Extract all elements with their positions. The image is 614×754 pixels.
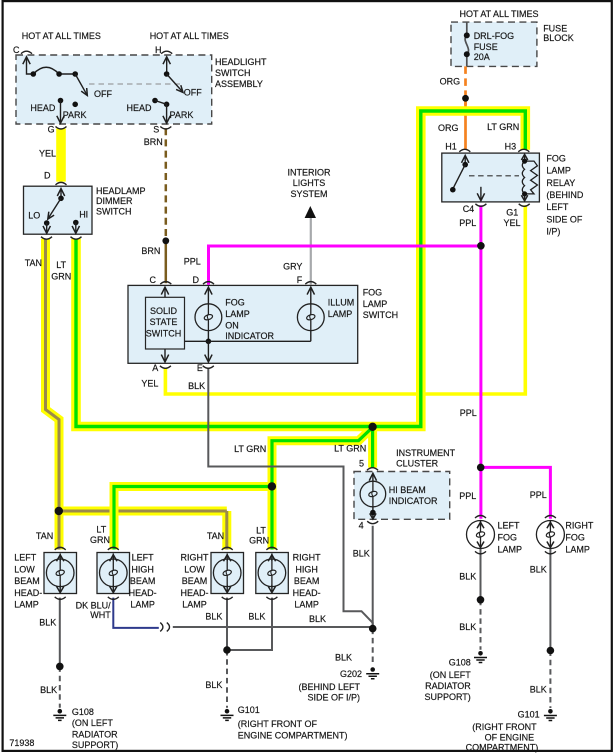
svg-text:BLK: BLK <box>248 611 265 621</box>
svg-text:LT GRN: LT GRN <box>234 444 266 454</box>
svg-text:HI BEAM: HI BEAM <box>389 485 426 495</box>
svg-text:5: 5 <box>359 459 364 469</box>
wire ORG: splice to relay H1 (solid) <box>464 101 467 150</box>
label ground G108 left <box>72 707 118 750</box>
label BLK ground bus <box>309 614 326 624</box>
splice dot on ORG wire <box>462 95 469 102</box>
svg-text:HIGH: HIGH <box>131 564 154 574</box>
svg-text:BLOCK: BLOCK <box>543 33 574 43</box>
label PARK left <box>63 110 87 120</box>
terminal 5 <box>367 468 378 471</box>
label LT GRN wire mid right <box>334 443 366 453</box>
label BLK wire left low beam <box>39 617 56 627</box>
svg-text:YEL: YEL <box>504 218 521 228</box>
svg-text:H1: H1 <box>445 141 457 151</box>
wire ORG: fuse block to splice (dashed) <box>464 66 467 150</box>
svg-text:TAN: TAN <box>207 531 224 541</box>
left fog lamp bulb <box>467 516 495 554</box>
terminal F fog switch <box>305 282 316 285</box>
svg-text:PARK: PARK <box>63 110 87 120</box>
headlamp dimmer switch wiper <box>43 189 80 234</box>
svg-text:F: F <box>297 275 303 285</box>
svg-text:D: D <box>193 275 200 285</box>
label ORG wire lower <box>438 123 459 133</box>
svg-text:RELAY: RELAY <box>546 178 575 188</box>
label OFF left <box>94 89 112 99</box>
svg-text:SOLID: SOLID <box>150 306 178 316</box>
svg-text:(BEHIND LEFT: (BEHIND LEFT <box>298 682 360 692</box>
label LT GRN wire at right high beam <box>249 525 269 545</box>
dimmer HI terminal <box>71 237 82 240</box>
ground G202 <box>366 667 379 679</box>
terminal C fog switch <box>160 282 171 285</box>
svg-text:HOT AT ALL TIMES: HOT AT ALL TIMES <box>22 31 101 41</box>
fog lamp on indicator bulb <box>195 287 222 362</box>
ground G101 right <box>544 709 557 721</box>
svg-text:RIGHT: RIGHT <box>293 553 322 563</box>
svg-text:BLK: BLK <box>205 680 222 690</box>
right high beam headlamp box <box>256 553 288 594</box>
label solid state switch <box>146 306 182 339</box>
svg-text:PPL: PPL <box>460 408 477 418</box>
svg-text:TAN: TAN <box>36 531 53 541</box>
svg-text:BEAM: BEAM <box>294 576 320 586</box>
dimmer LO terminal <box>41 237 52 240</box>
terminal D <box>56 182 67 185</box>
fuse block box <box>451 22 537 66</box>
label HEAD left <box>30 103 56 113</box>
label LT GRN wire at left high beam <box>90 525 110 546</box>
svg-text:GRN: GRN <box>90 535 110 545</box>
svg-text:STATE: STATE <box>150 317 178 327</box>
svg-text:GRN: GRN <box>51 271 71 281</box>
label DRL-FOG fuse 20A <box>474 31 515 62</box>
label BRN wire upper <box>144 137 163 147</box>
pin G <box>48 124 55 134</box>
label BLK wire to G101 left <box>205 680 222 690</box>
svg-text:4: 4 <box>359 521 364 531</box>
svg-text:SIDE OF I/P): SIDE OF I/P) <box>307 693 360 703</box>
label interior lights system <box>287 167 331 198</box>
pin G1 <box>506 207 518 217</box>
wire BLK: horizontal run from inline connector to G202 junction <box>173 626 373 628</box>
label left low beam headlamp <box>14 553 42 610</box>
label YEL wire G-D <box>39 149 56 159</box>
svg-text:BLK: BLK <box>459 571 476 581</box>
label fog lamp relay <box>546 153 584 236</box>
svg-text:LAMP: LAMP <box>130 600 155 610</box>
label DK BLU/WHT wire <box>76 601 112 620</box>
svg-text:RADIATOR: RADIATOR <box>72 729 118 739</box>
label ground G101 left <box>238 705 348 741</box>
wire TAN core stripe <box>46 239 227 550</box>
wire BLK dashed: splice to ground G101 right <box>549 651 551 709</box>
svg-text:PPL: PPL <box>459 218 476 228</box>
svg-text:G108: G108 <box>449 658 471 668</box>
svg-text:BLK: BLK <box>530 685 547 695</box>
svg-text:CLUSTER: CLUSTER <box>396 459 439 469</box>
svg-text:GRN: GRN <box>249 536 269 546</box>
pin S <box>153 124 159 134</box>
svg-text:(BEHIND: (BEHIND <box>546 190 584 200</box>
junction dot TAN <box>55 507 63 515</box>
label BLK wire right fog <box>530 565 547 575</box>
svg-text:BLK: BLK <box>205 611 222 621</box>
fog switch internal bus <box>185 340 311 342</box>
svg-text:HEAD-: HEAD- <box>293 588 321 598</box>
label LT GRN wire upper <box>51 260 71 282</box>
svg-text:BLK: BLK <box>188 381 205 391</box>
right high beam bulb <box>258 547 286 599</box>
label instrument cluster <box>396 448 455 469</box>
relay actuation dashed line <box>469 175 519 177</box>
wire BLK: fog switch E down, right, to G202 junction <box>208 368 372 629</box>
svg-text:E: E <box>197 363 203 373</box>
junction dot BLK at right headlamps ground <box>223 646 231 654</box>
svg-text:ASSEMBLY: ASSEMBLY <box>215 79 263 89</box>
svg-text:LOW: LOW <box>14 564 35 574</box>
svg-text:20A: 20A <box>474 52 490 62</box>
svg-text:PPL: PPL <box>530 490 547 500</box>
wire BLK dashed: junction to ground G202 <box>372 629 374 666</box>
junction dot PPL at C4 branch <box>477 242 485 250</box>
svg-text:RIGHT: RIGHT <box>565 520 594 530</box>
label LO <box>28 211 40 221</box>
svg-text:COMPARTMENT): COMPARTMENT) <box>466 743 539 753</box>
label YEL wire at G1 <box>504 218 521 228</box>
label LT GRN wire at H3 <box>487 122 519 132</box>
svg-text:INSTRUMENT: INSTRUMENT <box>396 448 455 458</box>
pin D fog switch <box>193 275 200 285</box>
svg-text:INDICATOR: INDICATOR <box>225 331 274 341</box>
svg-text:LIGHTS: LIGHTS <box>293 178 326 188</box>
label BLK wire left fog lower <box>459 622 476 632</box>
svg-text:LAMP: LAMP <box>546 166 571 176</box>
wire BRN: splice to fog switch C <box>165 240 168 283</box>
svg-text:LAMP: LAMP <box>14 600 39 610</box>
fog lamp switch box <box>128 285 358 363</box>
svg-text:HEADLAMP: HEADLAMP <box>96 186 146 196</box>
label BLK wire pin4 <box>353 549 370 559</box>
headlight switch left section wiper and contacts <box>23 57 88 123</box>
wire BRN dashed: headlight switch S to splice <box>165 128 168 283</box>
svg-text:HIGH: HIGH <box>295 564 318 574</box>
label headlamp dimmer switch <box>96 186 146 216</box>
wire PPL: junction to right fog lamp <box>481 467 551 518</box>
terminal D fog switch <box>203 282 214 285</box>
pin D <box>44 171 51 181</box>
label PARK right <box>170 110 194 120</box>
headlight switch assembly box <box>16 55 212 124</box>
junction dot BLK left fog ground <box>477 596 485 604</box>
pin A fog switch <box>152 363 158 373</box>
svg-text:BLK: BLK <box>39 617 56 627</box>
svg-text:LEFT: LEFT <box>498 520 521 530</box>
svg-text:LAMP: LAMP <box>182 600 207 610</box>
hi beam indicator bulb <box>360 473 386 519</box>
svg-text:H: H <box>155 45 162 55</box>
svg-text:BEAM: BEAM <box>14 576 40 586</box>
label PPL wire left fog <box>459 491 476 501</box>
svg-text:SWITCH: SWITCH <box>96 206 132 216</box>
svg-text:(ON LEFT: (ON LEFT <box>430 670 472 680</box>
svg-text:LOW: LOW <box>184 564 205 574</box>
svg-text:ORG: ORG <box>440 77 461 87</box>
svg-text:HEAD-: HEAD- <box>129 588 157 598</box>
right low beam bulb <box>213 547 241 599</box>
svg-text:BLK: BLK <box>459 622 476 632</box>
label hot at all times right <box>460 9 539 19</box>
solid state switch leads <box>161 287 168 362</box>
svg-text:SYSTEM: SYSTEM <box>290 189 327 199</box>
svg-text:LT: LT <box>256 525 266 535</box>
label illum lamp <box>328 297 355 319</box>
label hot at all times left <box>22 31 101 41</box>
label PPL wire at D <box>184 257 201 267</box>
svg-text:G: G <box>48 124 55 134</box>
svg-text:FOG: FOG <box>498 533 518 543</box>
wire LT GRN: junction to high beam headlamps (yellow outer) <box>114 427 373 549</box>
svg-text:PPL: PPL <box>184 257 201 267</box>
svg-text:LT: LT <box>96 525 106 535</box>
svg-text:HEAD-: HEAD- <box>14 588 42 598</box>
label BLK wire left fog <box>459 571 476 581</box>
svg-text:G101: G101 <box>518 709 540 719</box>
svg-text:HEAD: HEAD <box>127 103 153 113</box>
label OFF right <box>184 87 202 97</box>
terminal C <box>21 51 32 54</box>
label BLK wire right fog lower <box>530 685 547 695</box>
label fog lamp switch <box>363 288 399 320</box>
left high beam bulb <box>100 547 128 599</box>
label PPL wire mid <box>460 408 477 418</box>
svg-text:BRN: BRN <box>141 246 160 256</box>
terminal H <box>161 51 172 54</box>
solid state switch box <box>146 297 185 349</box>
right fog lamp bulb <box>536 516 564 554</box>
svg-text:ON: ON <box>225 320 239 330</box>
svg-text:LAMP: LAMP <box>294 600 319 610</box>
svg-text:H3: H3 <box>505 141 517 151</box>
terminal H3 <box>518 149 529 152</box>
label PPL wire right fog <box>530 490 547 500</box>
pin C4 <box>463 204 475 214</box>
headlamp dimmer switch box <box>24 186 93 234</box>
pin C fog switch <box>150 275 157 285</box>
label YEL wire at A <box>141 378 158 388</box>
illumination lamp bulb <box>297 287 324 341</box>
svg-text:LEFT: LEFT <box>14 553 37 563</box>
svg-text:SUPPORT): SUPPORT) <box>424 692 470 702</box>
svg-text:BEAM: BEAM <box>182 576 208 586</box>
svg-text:FUSE: FUSE <box>543 23 567 33</box>
label ORG wire upper <box>440 77 461 87</box>
svg-text:FOG: FOG <box>363 288 383 298</box>
svg-text:OFF: OFF <box>184 87 202 97</box>
interior lights system arrow <box>305 206 316 218</box>
terminal H1 <box>459 149 470 152</box>
terminal E fog switch <box>203 366 214 369</box>
svg-text:LAMP: LAMP <box>328 309 353 319</box>
svg-text:A: A <box>152 363 158 373</box>
svg-text:OF ENGINE: OF ENGINE <box>485 733 535 743</box>
label left high beam headlamp <box>129 553 157 610</box>
terminal S <box>160 127 171 130</box>
DRL-FOG fuse element <box>464 22 470 66</box>
svg-text:TAN: TAN <box>25 258 42 268</box>
svg-text:BLK: BLK <box>530 565 547 575</box>
svg-text:I/P): I/P) <box>546 227 560 237</box>
svg-text:HOT AT ALL TIMES: HOT AT ALL TIMES <box>150 31 229 41</box>
svg-text:PPL: PPL <box>459 491 476 501</box>
left low beam bulb <box>46 547 74 599</box>
svg-text:BLK: BLK <box>335 652 352 662</box>
terminal C4 <box>475 204 486 207</box>
wire LT GRN: branch junction to instrument cluster pin 5 (yellow outer) <box>368 427 377 468</box>
svg-text:HEADLIGHT: HEADLIGHT <box>215 57 267 67</box>
wire TAN: dimmer LO to low beam headlamps (yellow outer) <box>46 239 227 550</box>
wire GRY: fog switch F up to interior lights system <box>310 218 312 285</box>
svg-text:C: C <box>13 45 20 55</box>
svg-text:SIDE OF: SIDE OF <box>546 214 583 224</box>
ground G108 left <box>53 709 66 721</box>
pin H1 <box>445 141 457 151</box>
label GRY wire <box>283 262 302 272</box>
label ground G202 <box>298 669 362 703</box>
wire PPL: fog switch D up and right to relay C4 line <box>209 246 481 285</box>
fog lamp relay box <box>442 153 540 202</box>
svg-text:LEFT: LEFT <box>132 553 155 563</box>
label right fog lamp <box>565 520 594 554</box>
svg-text:FUSE: FUSE <box>474 42 498 52</box>
wire YEL thin: fog switch A to relay G1 <box>165 205 525 394</box>
label TAN wire at right low beam <box>207 531 224 541</box>
svg-text:LAMP: LAMP <box>225 309 250 319</box>
junction dot BLK right fog ground <box>547 647 555 655</box>
terminal G1 <box>519 204 530 207</box>
svg-text:LAMP: LAMP <box>363 299 388 309</box>
svg-text:LAMP: LAMP <box>565 545 590 555</box>
junction dot LT GRN high beams <box>268 482 276 490</box>
wire BLK dashed: splice to ground G108 right <box>480 600 482 650</box>
svg-text:FOG: FOG <box>546 153 566 163</box>
svg-text:LO: LO <box>28 211 40 221</box>
label right low beam headlamp <box>180 553 209 610</box>
svg-text:BLK: BLK <box>353 549 370 559</box>
svg-text:LT GRN: LT GRN <box>334 443 366 453</box>
label TAN wire upper <box>25 258 42 268</box>
svg-text:G1: G1 <box>506 207 518 217</box>
wire BLK: right low + right high beam headlamps to splice <box>227 598 272 650</box>
left high beam headlamp box <box>97 553 130 594</box>
fog lamp relay coil with parallel resistor <box>521 154 537 201</box>
svg-text:HEAD-: HEAD- <box>180 588 208 598</box>
label ground G108 right <box>424 658 471 703</box>
svg-text:RIGHT: RIGHT <box>181 553 210 563</box>
svg-text:LT GRN: LT GRN <box>487 122 519 132</box>
wire PPL: relay C4 down to fog lamp junction <box>479 205 482 519</box>
svg-text:LAMP: LAMP <box>498 545 523 555</box>
svg-text:PARK: PARK <box>170 110 194 120</box>
svg-text:RADIATOR: RADIATOR <box>425 681 471 691</box>
label BLK wire to G202 <box>335 652 352 662</box>
pin C headlight switch <box>13 45 20 55</box>
svg-text:G101: G101 <box>238 705 260 715</box>
svg-text:(ON LEFT: (ON LEFT <box>72 718 114 728</box>
label BLK wire right high beam <box>248 611 265 621</box>
junction dot BLK at G202 <box>369 625 377 633</box>
svg-text:(RIGHT FRONT: (RIGHT FRONT <box>472 722 537 732</box>
label hi beam indicator <box>389 485 438 506</box>
wire BLK: instrument cluster pin 4 down <box>372 526 374 629</box>
splice dot on BRN wire <box>162 237 169 244</box>
wire LT GRN: dimmer HI to junction, up-over band to relay H3 (yellow outer) <box>76 111 525 550</box>
wire BLK dashed: splice to ground G101 <box>226 650 228 708</box>
instrument cluster box <box>354 472 450 520</box>
terminal G <box>56 127 67 130</box>
label right high beam headlamp <box>293 553 322 610</box>
label BLK wire at E <box>188 381 205 391</box>
label ground G101 right <box>466 709 540 752</box>
label headlight switch assembly <box>215 57 267 89</box>
label fuse block <box>543 23 574 43</box>
pin F fog switch <box>297 275 303 285</box>
svg-text:C4: C4 <box>463 204 475 214</box>
svg-text:HI: HI <box>79 210 88 220</box>
pin H3 <box>505 141 517 151</box>
label PPL wire at C4 <box>459 218 476 228</box>
wire DK BLU/WHT: left high beam headlamp to inline connector <box>113 598 159 628</box>
pin 5 cluster <box>359 459 364 469</box>
svg-text:INTERIOR: INTERIOR <box>287 167 331 177</box>
svg-text:HEAD: HEAD <box>30 103 56 113</box>
svg-text:LT: LT <box>56 260 66 270</box>
svg-text:DIMMER: DIMMER <box>96 196 133 206</box>
junction dot LT GRN main <box>368 423 376 431</box>
svg-text:C: C <box>150 275 157 285</box>
label HI <box>79 210 88 220</box>
svg-text:FOG: FOG <box>565 533 585 543</box>
label left fog lamp <box>498 520 523 554</box>
fog lamp relay switch blade <box>450 155 485 200</box>
svg-text:S: S <box>153 124 159 134</box>
label fog lamp on indicator <box>225 297 274 341</box>
label HEAD right <box>127 103 153 113</box>
label BRN wire lower <box>141 246 160 256</box>
right low beam headlamp box <box>211 553 244 594</box>
headlight switch right section wiper and contacts <box>152 57 183 123</box>
label TAN wire at left low beam <box>36 531 53 541</box>
svg-text:SWITCH: SWITCH <box>215 68 251 78</box>
svg-text:BLK: BLK <box>309 614 326 624</box>
svg-text:SWITCH: SWITCH <box>146 329 182 339</box>
junction dot BLK left low beam ground <box>56 663 64 671</box>
svg-text:INDICATOR: INDICATOR <box>389 496 438 506</box>
ground G101 left <box>221 709 234 721</box>
svg-text:G108: G108 <box>72 707 94 717</box>
pin 4 cluster <box>359 521 364 531</box>
svg-text:BRN: BRN <box>144 137 163 147</box>
wire LT GRN green cores <box>76 111 525 427</box>
headlight switch mechanical link dashed line <box>89 83 180 85</box>
label BLK wire right low beam <box>205 611 222 621</box>
label LT GRN wire mid left <box>234 444 266 454</box>
label BLK wire to G108 left <box>40 685 57 695</box>
svg-text:SWITCH: SWITCH <box>363 310 399 320</box>
pin E fog switch <box>197 363 203 373</box>
wire BLK: left low beam headlamp to splice <box>59 598 61 667</box>
svg-text:DRL-FOG: DRL-FOG <box>474 31 515 41</box>
